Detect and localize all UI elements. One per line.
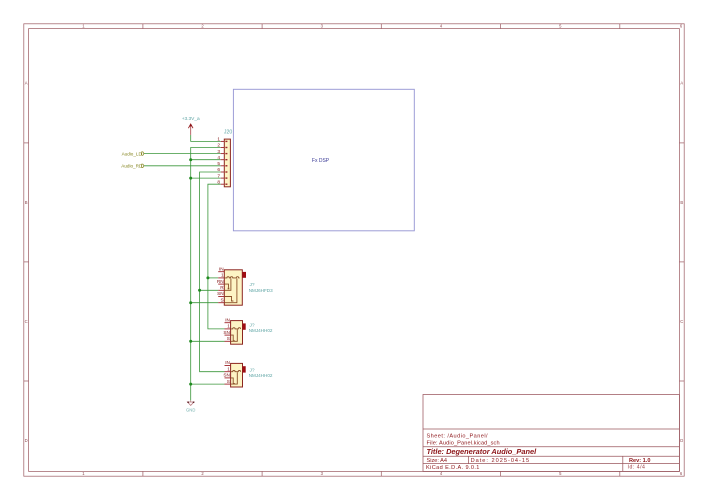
svg-text:6: 6: [217, 167, 220, 173]
svg-text:GND: GND: [186, 408, 195, 413]
svg-text:8: 8: [217, 179, 220, 185]
svg-text:NMJ4HH02: NMJ4HH02: [249, 328, 273, 333]
svg-text:7: 7: [217, 173, 220, 179]
svg-text:S: S: [220, 297, 223, 302]
svg-text:Size: A4: Size: A4: [427, 458, 448, 464]
svg-text:Title: Degenerator Audio_Panel: Title: Degenerator Audio_Panel: [427, 447, 538, 456]
svg-text:Fx DSP: Fx DSP: [312, 158, 330, 164]
svg-text:J?: J?: [250, 282, 255, 288]
svg-text:1: 1: [227, 366, 230, 371]
svg-text:Audio_RD: Audio_RD: [121, 164, 143, 169]
svg-text:4: 4: [440, 471, 443, 476]
svg-text:SN: SN: [223, 330, 230, 335]
svg-text:IN: IN: [225, 360, 230, 365]
svg-text:C: C: [25, 319, 28, 324]
svg-text:B: B: [680, 200, 683, 205]
svg-text:+3.3V_a: +3.3V_a: [182, 116, 200, 122]
svg-text:3: 3: [321, 24, 324, 29]
svg-text:4: 4: [440, 24, 443, 29]
svg-text:D: D: [680, 438, 683, 443]
svg-text:Id: 4/4: Id: 4/4: [628, 464, 646, 470]
svg-text:1: 1: [221, 273, 224, 278]
svg-text:1: 1: [217, 137, 220, 143]
svg-text:Rev: 1.0: Rev: 1.0: [629, 458, 650, 464]
svg-text:1: 1: [227, 324, 230, 329]
svg-text:S: S: [227, 336, 230, 341]
svg-text:Date: 2025-04-15: Date: 2025-04-15: [471, 458, 531, 464]
svg-text:KiCad E.D.A. 9.0.1: KiCad E.D.A. 9.0.1: [426, 465, 480, 471]
svg-text:2: 2: [201, 471, 204, 476]
svg-text:A: A: [25, 81, 28, 86]
svg-text:NMJ4HH02: NMJ4HH02: [249, 373, 273, 378]
svg-text:5: 5: [217, 161, 220, 167]
svg-text:5: 5: [559, 24, 562, 29]
svg-text:2: 2: [201, 24, 204, 29]
svg-text:1: 1: [82, 24, 85, 29]
svg-text:NMJ6HFD3: NMJ6HFD3: [249, 288, 273, 293]
svg-text:IN: IN: [219, 266, 224, 271]
svg-text:D: D: [25, 438, 28, 443]
svg-text:3: 3: [217, 149, 220, 155]
svg-text:SN: SN: [217, 291, 224, 296]
svg-text:C: C: [680, 319, 683, 324]
svg-text:SN: SN: [223, 373, 230, 378]
svg-text:File: Audio_Panel.kicad_sch: File: Audio_Panel.kicad_sch: [427, 440, 500, 446]
svg-text:IN: IN: [225, 317, 230, 322]
svg-text:1: 1: [82, 471, 85, 476]
svg-text:3: 3: [321, 471, 324, 476]
svg-text:R: R: [220, 285, 224, 290]
svg-text:6: 6: [680, 24, 683, 29]
svg-text:Audio_LD: Audio_LD: [122, 151, 143, 156]
svg-text:J20: J20: [224, 129, 232, 135]
svg-text:S: S: [227, 379, 230, 384]
svg-text:5: 5: [559, 471, 562, 476]
svg-text:RN: RN: [217, 279, 224, 284]
svg-text:4: 4: [217, 155, 220, 161]
svg-text:6: 6: [680, 471, 683, 476]
svg-text:A: A: [680, 81, 683, 86]
svg-text:B: B: [25, 200, 28, 205]
svg-text:Sheet: /Audio_Panel/: Sheet: /Audio_Panel/: [427, 434, 489, 440]
svg-text:2: 2: [217, 143, 220, 149]
